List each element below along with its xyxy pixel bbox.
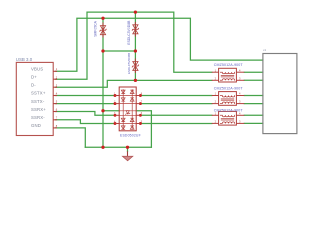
- svg-text:USB 3.0: USB 3.0: [16, 57, 33, 62]
- svg-text:SMF05CA: SMF05CA: [94, 20, 98, 36]
- svg-text:VBUS: VBUS: [31, 67, 43, 72]
- svg-text:SSTX-: SSTX-: [31, 99, 45, 104]
- svg-text:x1: x1: [263, 48, 267, 52]
- svg-text:ESDLC5V0D8B: ESDLC5V0D8B: [127, 53, 131, 74]
- svg-text:SSTX+: SSTX+: [31, 91, 46, 96]
- svg-text:CMZ5012A-900T: CMZ5012A-900T: [214, 108, 244, 112]
- svg-text:ESD0502UF: ESD0502UF: [120, 134, 141, 138]
- svg-text:ESDLC5V0D8B: ESDLC5V0D8B: [127, 20, 131, 45]
- svg-text:SSRX+: SSRX+: [31, 107, 46, 112]
- svg-text:GND: GND: [31, 123, 41, 128]
- svg-text:D+: D+: [31, 75, 37, 80]
- svg-text:CMZ5012A-900T: CMZ5012A-900T: [214, 86, 244, 90]
- svg-text:SSRX-: SSRX-: [31, 115, 45, 120]
- svg-text:D-: D-: [31, 83, 36, 88]
- svg-text:CMZ5012A-900T: CMZ5012A-900T: [214, 63, 244, 67]
